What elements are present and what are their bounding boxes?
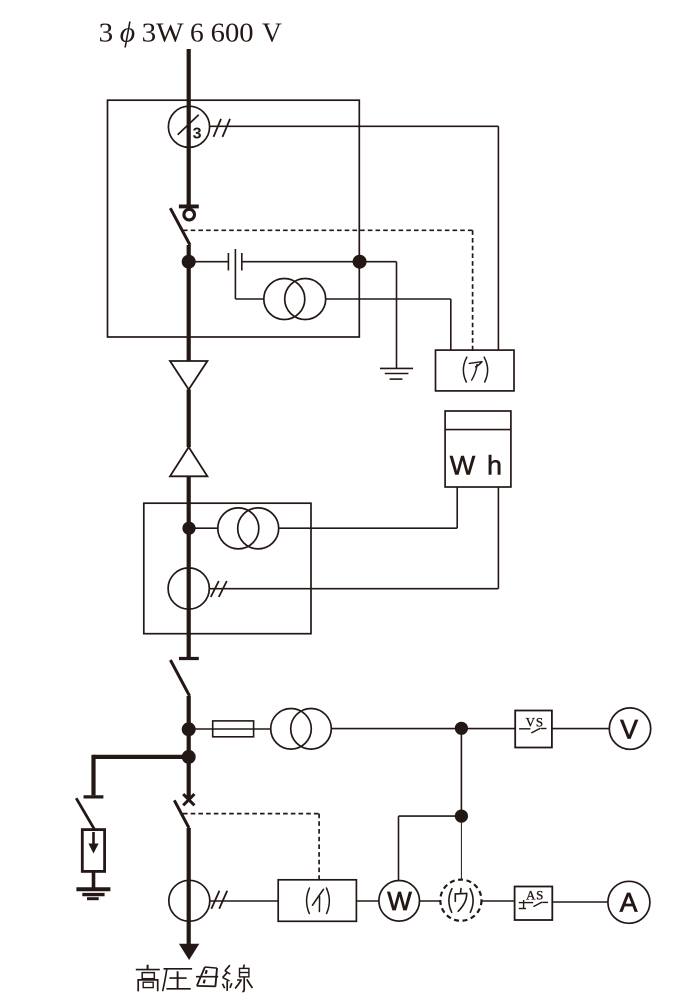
ZCT meter circle with 3: [168, 106, 209, 147]
junction dot: W / (ウ) branch: [455, 810, 468, 823]
wire: Wh leads down: [457, 487, 498, 589]
wire: (イ) to W: [356, 900, 379, 902]
meter: V voltmeter: [609, 708, 650, 749]
wire: dashed CB trip to (イ): [183, 814, 319, 880]
junction dot: main line / ZPD tap: [182, 255, 196, 269]
svg-text:A: A: [620, 887, 638, 917]
wire: branch down from VT2 line: [460, 729, 462, 817]
svg-text:3W: 3W: [142, 16, 184, 47]
transformer: CT for Wh: [189, 508, 279, 549]
meter: Wh watt-hour meter box: [445, 411, 511, 487]
svg-text:V: V: [262, 16, 282, 47]
wire: (ウ) to AS: [482, 900, 515, 902]
junction dot: VT2 tap: [182, 722, 196, 736]
capacitor: ZPD voltage divider: [189, 249, 360, 299]
meter circle: CT with // (bottom): [169, 880, 227, 921]
svg-text:h: h: [487, 451, 502, 481]
svg-text:ϕ: ϕ: [120, 16, 135, 48]
switch: disconnector DS: [170, 659, 198, 697]
junction dot: arrester branch: [182, 750, 196, 764]
ground: ZPD earth: [380, 368, 413, 379]
transformer: VT1 (ZPD transformer): [235, 279, 325, 320]
svg-text:V: V: [620, 714, 638, 744]
wire: AS to A: [552, 901, 608, 903]
wire: main line to VCT box: [187, 476, 191, 658]
wire: CT secondary to (イ): [210, 900, 278, 902]
switch: arrester disconnector: [76, 797, 103, 830]
wire: ZCT secondary to relay (ア) with // marks: [210, 119, 499, 350]
fuse: VT2 primary fuse: [213, 721, 254, 737]
wire: main incoming feeder (top): [187, 49, 191, 206]
switch box: AS ammeter selector: [515, 887, 553, 921]
svg-text:6: 6: [190, 16, 204, 47]
node: incoming source label 3phi3W 6600V: [99, 16, 282, 48]
wire: VCT meter line to Wh right lead: [209, 588, 498, 590]
arrester LA box with arrow: [82, 830, 104, 872]
cable head: lower triangle (up): [170, 447, 207, 476]
wire: tap to fuse: [189, 728, 213, 730]
relay box (ア): [436, 350, 515, 391]
label: 高圧母線 (HV busbar) hand-drawn kanji: [136, 965, 253, 992]
junction dot: voltmeter branch: [455, 722, 468, 735]
svg-text:600: 600: [211, 16, 254, 47]
線: [223, 965, 253, 992]
svg-text:W: W: [387, 886, 412, 916]
ground: arrester earth (bold): [76, 889, 110, 898]
svg-text:VS: VS: [526, 714, 544, 729]
enclosure box: incoming cubicle (box1): [108, 100, 360, 337]
wire: ZPD tap to ground: [360, 262, 397, 369]
wire: thick branch to arrester: [94, 755, 189, 796]
wire: dashed control from LBS to relay (ア): [183, 230, 473, 350]
wire: VT1 secondary to relay (ア): [326, 299, 451, 350]
junction dot: CT tap: [182, 522, 195, 535]
wire: main line LBS to cable head: [187, 245, 191, 361]
transformer: VT2 for metering: [254, 709, 332, 750]
meter: W wattmeter: [379, 881, 420, 922]
wire: CB to busbar: [187, 828, 191, 946]
wire: branch to (ウ): [460, 816, 462, 880]
enclosure box: VCT metering box (box2): [144, 503, 311, 634]
meter circle: VT element in VCT with //: [168, 568, 227, 609]
wire: W to (ウ): [420, 900, 441, 902]
busbar arrow: [179, 944, 199, 960]
meter: (ウ) dashed circle: [440, 880, 481, 921]
wire: CT secondary to Wh: [279, 527, 458, 529]
wire: DS to CB: [187, 696, 191, 800]
高: [136, 965, 160, 992]
meter: A ammeter: [608, 881, 650, 923]
relay box (イ): [278, 880, 356, 922]
wire: cable between heads: [187, 390, 191, 448]
breaker: CB with x mark: [174, 794, 194, 828]
母: [196, 967, 218, 986]
wire: LA to ground: [92, 871, 96, 887]
圧: [163, 969, 193, 991]
wire: VS to V: [552, 728, 609, 730]
wire: VT2 secondary to VS: [331, 728, 515, 730]
switch box: VS voltmeter selector: [515, 711, 552, 748]
cable head: upper triangle (down): [170, 361, 207, 390]
switch: load-break switch LBS with hook: [170, 206, 199, 245]
svg-text:3: 3: [193, 126, 202, 143]
junction dot: ZPD earthing tap on box edge: [353, 255, 367, 269]
wire: branch to W meter: [399, 816, 462, 881]
svg-text:AS: AS: [526, 887, 544, 902]
svg-text:W: W: [450, 451, 476, 481]
svg-text:3: 3: [99, 16, 114, 47]
